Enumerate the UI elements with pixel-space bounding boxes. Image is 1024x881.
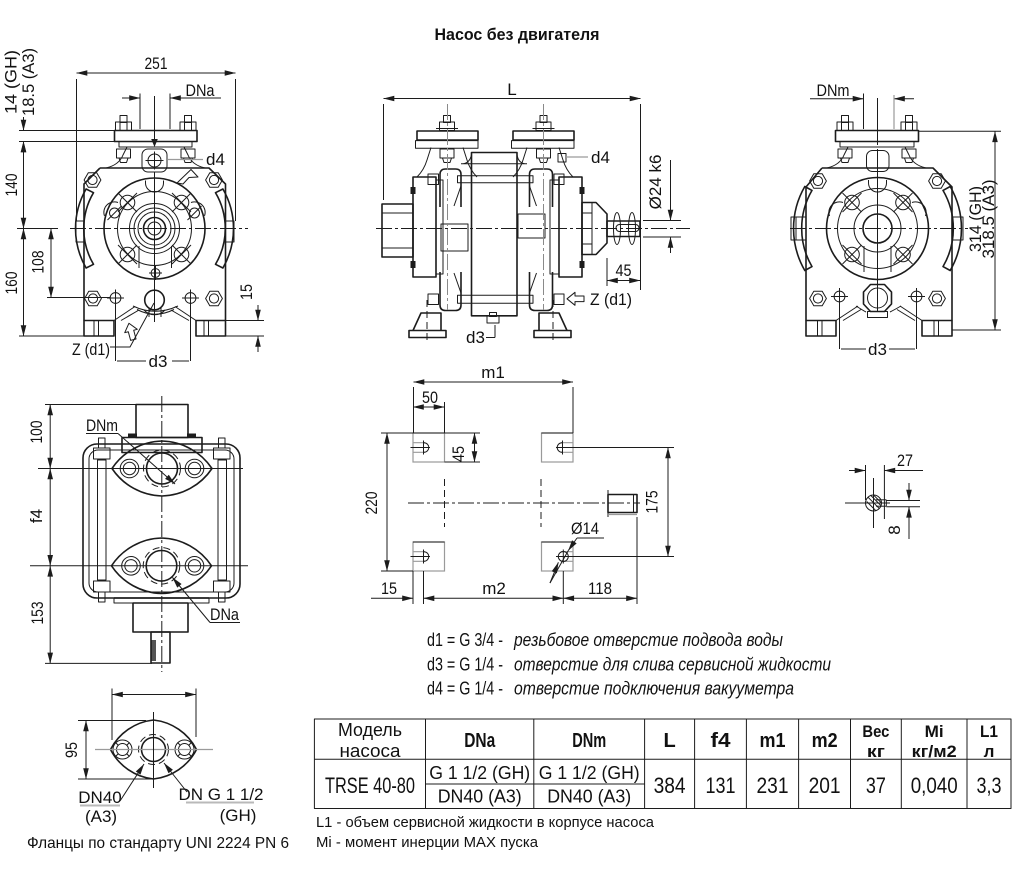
top view extension lines: [45, 404, 136, 406]
keyway centerlines: [873, 478, 875, 528]
front pocket arc left: [104, 202, 118, 216]
front neck curves: [106, 147, 127, 168]
top view tie column left: [98, 460, 107, 580]
fp top-right foot: [542, 433, 574, 462]
svg-text:384: 384: [654, 773, 686, 798]
svg-text:251: 251: [145, 54, 168, 73]
svg-text:45: 45: [449, 446, 468, 462]
svg-text:DN40 (A3): DN40 (A3): [438, 786, 522, 807]
svg-text:кг/м2: кг/м2: [912, 742, 957, 761]
front apron diagonals right: [171, 307, 196, 321]
svg-text:d4 = G 1/4 -: d4 = G 1/4 -: [427, 678, 503, 699]
svg-text:кг: кг: [867, 742, 885, 761]
front left foot: [84, 321, 114, 337]
svg-text:45: 45: [616, 261, 632, 280]
side top molding: [461, 155, 527, 164]
side d3 label: [486, 337, 495, 339]
top view bottom shaft stub: [151, 632, 170, 663]
svg-text:160: 160: [2, 272, 21, 295]
svg-text:140: 140: [2, 174, 21, 197]
top view body: [83, 444, 240, 598]
side casing window left: [441, 224, 468, 251]
top view DNm center circle: [147, 453, 178, 484]
svg-text:L: L: [663, 730, 675, 752]
front top flange plate: [115, 131, 198, 142]
dimension 95: [78, 720, 146, 722]
rear flange stud left: [842, 116, 849, 123]
dimension 15: [226, 320, 264, 322]
svg-text:m1: m1: [760, 730, 786, 752]
front ring circle: [118, 192, 192, 266]
top view DNa flange oval: [112, 538, 212, 594]
svg-text:m2: m2: [482, 579, 506, 598]
front foot cross circles d3: [107, 290, 124, 307]
flange width dimension: [112, 694, 196, 696]
dimension 14/18.5 flange lines: [19, 130, 115, 132]
spec table grid: [314, 719, 1011, 809]
dimension 140: [23, 142, 25, 229]
svg-text:отверстие подключения вакуумет: отверстие подключения вакууметра: [514, 678, 794, 699]
dimension 45: [607, 280, 640, 282]
svg-text:Насос без двигателя: Насос без двигателя: [435, 25, 600, 44]
rear pocket arc left: [829, 202, 843, 216]
rear ring circle: [838, 189, 918, 269]
rear inner circles: [854, 205, 901, 252]
rear main circle: [827, 178, 929, 280]
fp top-left foot: [413, 433, 445, 462]
side lower tower right: [530, 272, 553, 311]
flange detail outline: [111, 720, 197, 779]
side Z (d1) open arrow: [567, 292, 584, 305]
svg-text:Модель: Модель: [338, 720, 402, 740]
rear drain hex plug: [864, 285, 892, 312]
side left ring: [436, 180, 443, 274]
svg-text:L1 - объем сервисной жидкости: L1 - объем сервисной жидкости в корпусе …: [316, 814, 655, 831]
svg-text:DN40 (A3): DN40 (A3): [547, 786, 631, 807]
svg-text:131: 131: [706, 773, 736, 798]
top view DNa center circle: [146, 551, 177, 582]
svg-text:118: 118: [588, 579, 612, 598]
svg-text:0,040: 0,040: [911, 773, 958, 798]
svg-text:G 1 1/2 (GH): G 1 1/2 (GH): [539, 762, 640, 783]
rear neck curves: [827, 147, 848, 168]
dimension DNa: [122, 97, 140, 99]
svg-text:f4: f4: [27, 509, 46, 523]
dimension 118: [563, 597, 637, 599]
top view tie nuts: [94, 448, 111, 459]
rear below-flange hex right: [902, 149, 916, 158]
side left flange plates: [417, 131, 478, 140]
svg-text:d4: d4: [206, 150, 225, 169]
rear vertical centerline: [877, 98, 879, 145]
front horizontal centerline: [70, 228, 248, 230]
svg-text:8: 8: [885, 525, 904, 534]
front rotation arrow: [177, 170, 198, 185]
dimension 175: [568, 447, 674, 449]
keyway slot: [876, 499, 886, 501]
rear apron diagonals left: [836, 306, 861, 321]
side flange centerlines: [447, 104, 449, 310]
svg-text:(A3): (A3): [85, 807, 117, 826]
top view DNm bolts: [120, 459, 139, 478]
dimension m2: [424, 597, 564, 599]
rear right side lug: [952, 217, 963, 240]
rear volute lines: [863, 246, 865, 272]
svg-text:d3 = G 1/4 -: d3 = G 1/4 -: [427, 654, 503, 675]
fp bottom-left foot: [413, 542, 445, 571]
rear left side lug: [791, 217, 806, 240]
svg-text:DN40: DN40: [78, 788, 121, 807]
svg-text:(GH): (GH): [220, 806, 257, 825]
svg-text:DNm: DNm: [572, 730, 606, 752]
side right flange plates: [513, 131, 574, 140]
svg-text:m2: m2: [812, 730, 838, 752]
side right flange stud: [540, 116, 547, 123]
svg-text:Z (d1): Z (d1): [72, 340, 110, 359]
svg-text:15: 15: [237, 284, 256, 300]
dimension 45: [445, 432, 481, 434]
rear left arc tab: [794, 187, 812, 271]
front apron arc: [133, 306, 178, 314]
svg-text:153: 153: [28, 602, 47, 625]
rear apron arcs: [856, 306, 901, 312]
svg-text:d3: d3: [868, 340, 887, 359]
dimension 220: [381, 432, 413, 434]
side main centerline: [376, 228, 690, 230]
rear horizontal centerline: [790, 228, 968, 230]
svg-text:DN G 1 1/2: DN G 1 1/2: [178, 785, 263, 804]
svg-text:резьбовое отверстие подвода во: резьбовое отверстие подвода воды: [513, 629, 783, 650]
side shaft keyway: [616, 225, 639, 232]
front pocket arc right: [191, 202, 205, 216]
side right disc: [559, 177, 582, 277]
dimension 314/318.5: [919, 130, 1002, 132]
side right neck: [513, 148, 573, 178]
flange detail bolt left: [113, 740, 132, 759]
svg-text:50: 50: [422, 388, 438, 407]
front small slash circle left: [108, 206, 122, 220]
front right arc tab: [216, 189, 234, 268]
front below-flange hex left: [117, 149, 131, 158]
fp bottom-right foot: [542, 542, 574, 571]
front flow arrow: [151, 139, 158, 147]
front drain circle d1: [145, 290, 165, 310]
rear top U notch: [869, 180, 887, 192]
front left arc tab: [76, 189, 94, 268]
side central casing: [472, 153, 518, 316]
front left side lug: [76, 221, 84, 242]
front right side lug: [225, 221, 234, 242]
side right foot: [539, 313, 567, 331]
rear square port: [867, 151, 890, 172]
svg-text:Z (d1): Z (d1): [590, 290, 632, 309]
side tie rod lower: [458, 295, 534, 303]
rear view pump body outline: [806, 168, 952, 321]
svg-text:DNm: DNm: [86, 416, 118, 435]
dimension 27: [849, 470, 866, 472]
svg-text:отверстие для слива сервисной: отверстие для слива сервисной жидкости: [514, 654, 831, 675]
rear foot cross circles d3: [831, 288, 848, 305]
svg-text:15: 15: [381, 579, 397, 598]
svg-text:Вес: Вес: [862, 722, 889, 741]
svg-text:18.5 (A3): 18.5 (A3): [19, 48, 38, 116]
side d4 leader: [566, 156, 588, 158]
fp centerlines: [408, 502, 640, 504]
dimension m1: [414, 381, 574, 383]
label Z (d1) front: [110, 303, 154, 347]
svg-text:Ø24 k6: Ø24 k6: [646, 155, 665, 210]
svg-text:d3: d3: [466, 328, 485, 347]
top view motor stub: [136, 405, 188, 438]
svg-text:14 (GH): 14 (GH): [2, 50, 21, 114]
front concentric circles: [130, 204, 180, 254]
svg-text:3,3: 3,3: [977, 773, 1002, 798]
svg-text:d4: d4: [591, 148, 610, 167]
side key ellipses: [614, 213, 621, 245]
front d4 leader: [168, 159, 203, 161]
side tie rod upper: [458, 176, 534, 183]
side upper tower right: [530, 169, 553, 207]
rear right arc tab: [943, 187, 961, 271]
svg-text:G 1 1/2 (GH): G 1 1/2 (GH): [429, 762, 530, 783]
rear right foot: [922, 321, 952, 337]
top view bottom neck: [114, 597, 209, 599]
svg-text:201: 201: [809, 773, 841, 798]
side d4 stud: [558, 154, 566, 163]
dimension L: [384, 98, 641, 100]
front bottom small cross circle: [151, 269, 160, 278]
top view DNa bolts: [122, 557, 141, 576]
svg-text:37: 37: [866, 773, 886, 798]
rear corner hex bolts: [810, 174, 827, 189]
fp shaft end: [608, 495, 637, 513]
side left stub housing: [382, 204, 413, 257]
svg-text:DNa: DNa: [464, 730, 496, 752]
rear left foot: [806, 321, 836, 337]
dimension Ø24 k6: [670, 160, 672, 221]
side left neck: [417, 148, 477, 178]
front impeller bolt circles: [118, 193, 137, 212]
front top U notch: [146, 181, 164, 193]
front hub crosshair: [143, 228, 166, 230]
svg-text:220: 220: [362, 492, 381, 515]
dimension 251: [77, 72, 236, 74]
rear pocket arc right: [912, 202, 926, 216]
front vertical centerline lower: [154, 172, 156, 322]
side shaft: [607, 221, 640, 237]
rear flange stud right: [906, 116, 913, 123]
svg-text:27: 27: [897, 451, 913, 470]
svg-text:DNa: DNa: [186, 81, 215, 100]
svg-text:DNm: DNm: [817, 81, 850, 100]
svg-text:m1: m1: [481, 363, 505, 382]
side left flange lower nut: [440, 149, 454, 158]
side left flange stud: [444, 116, 451, 123]
svg-text:175: 175: [643, 491, 662, 514]
side right flange lower nut: [537, 149, 551, 158]
svg-text:d1 = G 3/4 -: d1 = G 3/4 -: [427, 629, 503, 650]
label d3 front: [115, 299, 117, 361]
svg-text:d3: d3: [149, 352, 168, 371]
svg-text:Ø14: Ø14: [571, 519, 599, 538]
svg-text:318.5 (A3): 318.5 (A3): [979, 180, 998, 259]
front main circle: [104, 178, 205, 279]
svg-text:f4: f4: [711, 730, 732, 752]
dimension 50: [413, 406, 445, 408]
svg-text:л: л: [984, 742, 995, 761]
dimension 160: [23, 229, 25, 337]
side right ring: [550, 180, 559, 274]
svg-text:DNa: DNa: [210, 605, 239, 624]
keyway hatching: [867, 495, 881, 510]
svg-text:TRSE 40-80: TRSE 40-80: [325, 773, 415, 798]
side bearing housing: [582, 203, 607, 255]
top view tie column right: [218, 460, 227, 580]
front view pump body outline: [84, 168, 226, 321]
flange detail centerlines: [95, 749, 213, 751]
top view centerlines: [161, 396, 163, 672]
dimension 8: [886, 500, 920, 502]
svg-text:108: 108: [29, 251, 48, 274]
front volute lines to bottom port: [138, 246, 140, 268]
side left foot: [413, 313, 441, 331]
front below-flange hex right: [181, 149, 195, 158]
dimension 15 fp: [371, 597, 413, 599]
dimension f4: [49, 469, 51, 566]
side casing window right: [518, 214, 545, 238]
side left disc: [413, 177, 436, 277]
side lower tower left: [440, 272, 461, 311]
rear bolt circles: [843, 193, 862, 212]
front flange stud left: [120, 116, 127, 123]
side d3 plug: [487, 316, 499, 323]
dimension DNm rear: [810, 98, 864, 100]
top view DNm flange oval: [112, 441, 212, 496]
front right foot: [196, 321, 226, 337]
front small slash circle right: [188, 206, 202, 220]
dimension 153: [49, 566, 51, 664]
svg-text:L: L: [507, 80, 516, 99]
top view collar: [122, 438, 202, 453]
front apron diagonals left: [114, 307, 139, 321]
svg-text:Фланцы по стандарту UNI 2224 P: Фланцы по стандарту UNI 2224 PN 6: [27, 835, 289, 852]
svg-text:L1: L1: [980, 722, 998, 741]
flange detail bolt right: [175, 740, 194, 759]
rear flange plate: [836, 131, 919, 142]
dimension 108: [50, 229, 52, 298]
front d4 port: [142, 149, 167, 172]
label d3 rear: [839, 298, 841, 350]
svg-text:231: 231: [757, 773, 789, 798]
svg-text:95: 95: [62, 742, 81, 758]
front corner hex bolts: [84, 173, 101, 188]
side foot centerlines: [426, 300, 428, 344]
side upper tower left: [440, 169, 461, 207]
svg-text:насоса: насоса: [340, 741, 402, 761]
keyway shaft section: [866, 495, 882, 511]
svg-text:Mi - момент инерции MAX пуска: Mi - момент инерции MAX пуска: [316, 834, 539, 851]
svg-text:Mi: Mi: [925, 722, 944, 741]
svg-text:100: 100: [27, 421, 46, 444]
flange detail center circle: [142, 738, 166, 762]
dimension 100: [49, 405, 51, 469]
front flange stud right: [185, 116, 192, 123]
rear apron diagonals right: [897, 306, 922, 321]
rear below-flange hex left: [838, 149, 852, 158]
